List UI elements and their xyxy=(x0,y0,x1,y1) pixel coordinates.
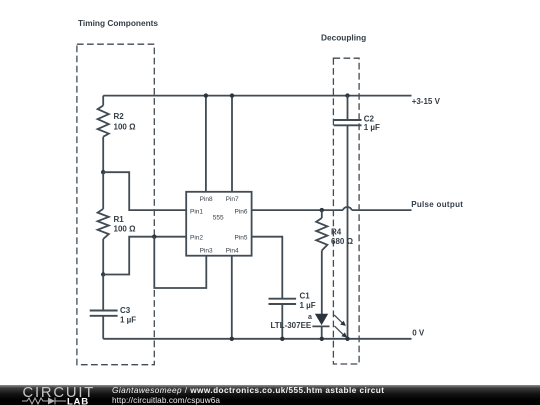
node Pin8 on rail xyxy=(204,93,208,97)
footer bar xyxy=(0,385,540,405)
LED emission arrow 2 xyxy=(334,326,347,338)
svg-text:C1: C1 xyxy=(300,292,311,301)
svg-text:R4: R4 xyxy=(331,228,342,237)
svg-text:Decoupling: Decoupling xyxy=(321,33,366,43)
wire Pin5 to C1 xyxy=(252,237,283,299)
wire R1 bottom lead xyxy=(102,239,104,275)
wire node A to Pin1 xyxy=(103,172,186,210)
svg-text:Pin3: Pin3 xyxy=(200,247,213,254)
node C2 on supply rail xyxy=(345,93,349,97)
wire C1 bottom lead xyxy=(281,304,283,339)
svg-text:1 µF: 1 µF xyxy=(364,123,380,132)
svg-text:0 V: 0 V xyxy=(412,328,425,337)
svg-text:Pin1: Pin1 xyxy=(190,209,203,216)
LED D1 anode triangle xyxy=(315,314,328,325)
capacitor C2 xyxy=(334,120,362,125)
resistor R2 xyxy=(98,106,109,137)
capacitor C1 xyxy=(269,299,297,304)
svg-text:1 µF: 1 µF xyxy=(300,301,316,310)
wire hop over decoupling wire xyxy=(343,207,352,210)
dashed region Timing Components xyxy=(77,44,154,365)
svg-text:a: a xyxy=(308,314,312,321)
node A junction xyxy=(101,170,105,174)
svg-text:Pin7: Pin7 xyxy=(226,196,239,203)
node C1 on 0V rail xyxy=(280,337,284,341)
svg-text:R1: R1 xyxy=(114,215,125,224)
svg-text:LAB: LAB xyxy=(67,397,89,405)
svg-text:555: 555 xyxy=(213,215,224,222)
wire 0V rail xyxy=(103,338,411,340)
svg-text:Timing Components: Timing Components xyxy=(78,18,158,28)
wire Pin8 riser xyxy=(205,96,207,192)
wire node B to Pin2 xyxy=(103,237,186,275)
svg-text:100 Ω: 100 Ω xyxy=(114,123,137,132)
wire C2 down to 0V xyxy=(347,125,349,338)
node B junction xyxy=(101,272,105,276)
svg-text:100 Ω: 100 Ω xyxy=(114,225,137,234)
wire junction to Pin3 xyxy=(154,237,206,288)
svg-text:Pin2: Pin2 xyxy=(190,235,203,242)
svg-text:680 Ω: 680 Ω xyxy=(331,237,354,246)
node C2 wire on 0V rail xyxy=(345,337,349,341)
svg-text:1 µF: 1 µF xyxy=(120,316,136,325)
svg-text:+3-15 V: +3-15 V xyxy=(412,97,441,106)
wire C2 top lead xyxy=(347,96,349,120)
capacitor C3 xyxy=(90,311,118,316)
svg-text:R2: R2 xyxy=(114,112,125,121)
wire R2 bottom lead xyxy=(102,137,104,173)
wire Pin4 to 0V xyxy=(231,256,233,339)
wire R4 top lead xyxy=(321,210,323,218)
node R4 top on pulse line xyxy=(320,208,324,212)
footer url line xyxy=(112,396,220,405)
wire Pin6 pulse output left segment xyxy=(252,209,344,211)
svg-text:Pin6: Pin6 xyxy=(235,209,248,216)
svg-text:Pin5: Pin5 xyxy=(235,235,248,242)
dashed region Decoupling xyxy=(333,58,359,364)
node LED on 0V rail xyxy=(320,337,324,341)
LED emission arrow 1 xyxy=(334,315,346,326)
footer logo CIRCUIT xyxy=(23,385,96,401)
wire R1 top lead xyxy=(102,172,104,209)
wire C3 bottom lead xyxy=(102,316,104,339)
footer logo squiggle and LAB xyxy=(21,396,101,405)
wire C3 top lead xyxy=(102,275,104,311)
wire R2 top lead xyxy=(102,96,104,106)
svg-text:Pin4: Pin4 xyxy=(226,247,239,254)
resistor R1 xyxy=(98,209,109,239)
wire top supply rail xyxy=(103,95,411,97)
svg-text:C3: C3 xyxy=(120,306,131,315)
wire pulse output right segment xyxy=(352,209,412,211)
node Pin2/Pin3 junction xyxy=(152,235,156,239)
wire R4 to LED lead xyxy=(321,251,323,315)
node Pin4 on 0V rail xyxy=(230,337,234,341)
wire Pin7 riser xyxy=(231,96,233,192)
footer attribution line xyxy=(112,386,384,395)
svg-text:LTL-307EE: LTL-307EE xyxy=(271,321,312,330)
svg-text:Pulse output: Pulse output xyxy=(411,200,463,209)
svg-text:Pin8: Pin8 xyxy=(200,196,213,203)
LED D1 cathode bar xyxy=(312,325,329,327)
wire LED bottom lead xyxy=(321,326,323,338)
IC U1 555 body xyxy=(186,192,251,256)
node Pin7 on rail xyxy=(230,93,234,97)
resistor R4 xyxy=(316,218,327,251)
